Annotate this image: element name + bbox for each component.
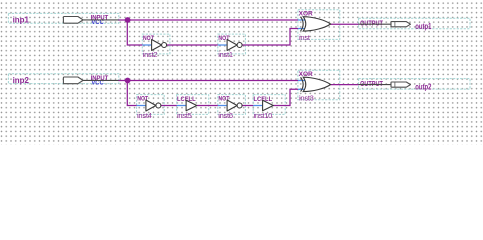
svg-text:inp2: inp2 bbox=[13, 75, 30, 85]
svg-text:outp1: outp1 bbox=[415, 22, 432, 31]
svg-text:inst5: inst5 bbox=[177, 111, 192, 120]
svg-text:inst10: inst10 bbox=[254, 111, 273, 120]
svg-text:inst: inst bbox=[299, 33, 311, 42]
svg-text:inst1: inst1 bbox=[218, 50, 233, 59]
svg-text:outp2: outp2 bbox=[415, 82, 432, 91]
svg-text:inst4: inst4 bbox=[137, 111, 152, 120]
svg-text:inst6: inst6 bbox=[218, 111, 233, 120]
svg-text:inst2: inst2 bbox=[143, 50, 158, 59]
svg-text:inp1: inp1 bbox=[13, 15, 30, 25]
svg-text:inst3: inst3 bbox=[299, 93, 314, 102]
